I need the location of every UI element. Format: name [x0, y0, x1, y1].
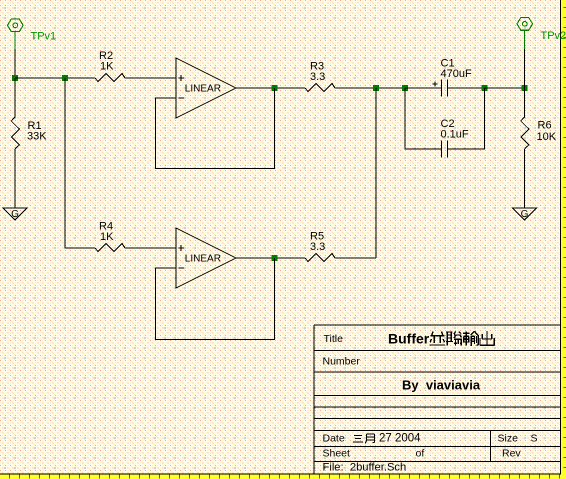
svg-text:LINEAR: LINEAR [185, 84, 221, 95]
node D junction [373, 85, 379, 91]
svg-text:Number: Number [323, 356, 361, 368]
svg-text:Rev: Rev [502, 448, 521, 460]
op-amp U1 minus pin [178, 97, 184, 99]
svg-text:1K: 1K [100, 61, 114, 73]
wire U1 output [236, 87, 305, 89]
svg-text:R6: R6 [538, 120, 552, 132]
svg-text:Buffer: Buffer [388, 331, 430, 347]
node G junction [522, 85, 528, 91]
wire C1 to node F [448, 87, 485, 89]
svg-text:of: of [416, 448, 425, 460]
svg-text:27 2004: 27 2004 [379, 433, 421, 445]
capacitor C1 [433, 80, 448, 97]
wire node D down to R5 out [375, 88, 377, 258]
wire TPv1 to node A [14, 49, 16, 78]
node F junction [482, 85, 488, 91]
svg-text:G: G [521, 209, 529, 220]
svg-text:G: G [11, 209, 19, 220]
svg-text:10K: 10K [537, 131, 557, 143]
op-amp U2 minus pin [178, 267, 184, 269]
date CJK 三月 [353, 434, 375, 444]
node H junction (U2 out) [272, 255, 278, 261]
wire node G down to R6 [524, 88, 526, 117]
wire node A down to R1 [14, 78, 16, 117]
wire U2 feedback [156, 258, 275, 340]
svg-text:3.3: 3.3 [310, 241, 325, 253]
title block [314, 325, 561, 473]
ground G2 [513, 208, 537, 220]
wire U2 output [236, 257, 305, 259]
resistor R1 [11, 117, 19, 149]
test point TPv1 [8, 19, 24, 49]
node A junction [12, 75, 18, 81]
wire R4 to op-amp U2 + [125, 247, 176, 249]
resistor R2 [95, 74, 125, 82]
op-amp U2 [176, 228, 236, 288]
wire C2 branch right [448, 88, 485, 149]
wire R2 to op-amp U1 + [125, 77, 176, 79]
wire R1 to ground [14, 149, 16, 208]
svg-text:Sheet: Sheet [323, 448, 351, 460]
wire R3 to node D [335, 87, 405, 89]
svg-text:Title: Title [324, 333, 344, 345]
title text CJK 並聯輸出 [430, 331, 495, 346]
op-amp U2 plus pin [178, 245, 184, 251]
svg-text:By viaviavia: By viaviavia [402, 378, 481, 393]
node C junction (U1 out) [272, 85, 278, 91]
node B junction [62, 75, 68, 81]
wire C2 branch left [405, 88, 442, 149]
resistor R6 [521, 117, 529, 149]
ground G1 [3, 208, 27, 220]
svg-text:0.1uF: 0.1uF [441, 129, 469, 141]
wire node E to C1 [405, 87, 442, 89]
svg-text:TPv2: TPv2 [541, 30, 566, 42]
wire U1 feedback [156, 88, 275, 169]
capacitor C2 [442, 141, 448, 158]
wire TPv2 to node G [524, 49, 526, 88]
resistor R4 [95, 244, 125, 252]
svg-text:3.3: 3.3 [310, 71, 325, 83]
op-amp U1 plus pin [178, 75, 184, 81]
svg-text:S: S [531, 433, 538, 445]
svg-text:1K: 1K [100, 231, 114, 243]
wire node F to node G [485, 87, 525, 89]
op-amp U1 [176, 58, 236, 118]
svg-text:Date: Date [323, 433, 345, 445]
wire R5 to node D column [335, 257, 376, 259]
resistor R3 [305, 84, 335, 92]
svg-text:File: 2buffer.Sch: File: 2buffer.Sch [323, 462, 407, 474]
wire node B down to R4 [65, 78, 95, 248]
svg-text:Size: Size [498, 433, 519, 445]
svg-text:TPv1: TPv1 [31, 30, 57, 42]
wire R6 to ground [524, 149, 526, 208]
wire node A to R2 [15, 77, 95, 79]
svg-text:33K: 33K [27, 131, 47, 143]
node E junction [402, 85, 408, 91]
test point TPv2 [517, 18, 533, 49]
svg-text:LINEAR: LINEAR [185, 254, 221, 265]
resistor R5 [305, 254, 335, 262]
svg-text:470uF: 470uF [441, 68, 472, 80]
